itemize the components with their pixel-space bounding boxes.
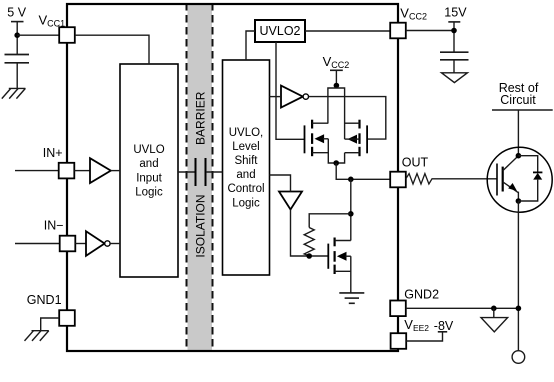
svg-text:UVLO2: UVLO2 [260,24,301,38]
transistor Q4 IGBT body [497,156,518,201]
svg-text:5 V: 5 V [7,6,26,20]
svg-text:Logic: Logic [135,186,163,198]
5V supply bar [11,21,24,23]
wire GND1 pin to ground [41,318,60,331]
wire UVLO2 to PMOS gate node [276,42,305,139]
wire C2 to ground triangle [453,60,455,73]
svg-text:Shift: Shift [234,155,258,167]
block UVLO and Input Logic [120,64,178,277]
resistor R1 (vertical) [304,228,314,257]
isolation barrier right dashed line [212,3,214,351]
wire inverter A3 to right PMOS gate [309,97,386,140]
wire 15V to node [453,22,455,52]
pin OUT [390,172,406,188]
svg-text:VCC2: VCC2 [400,6,427,22]
wire IN+ external [15,170,59,172]
wire emitter down [517,201,519,351]
isolation barrier left dashed line [186,3,188,351]
isolation capacitor wire left [178,171,195,173]
svg-text:Control: Control [227,183,264,195]
block UVLO2 [255,20,305,42]
capacitor C2 plates [440,52,469,60]
-8V supply bar [438,331,447,333]
node 5V/VCC1 junction [14,32,20,38]
wire C1 to ground [16,63,18,89]
capacitor C1 plates [5,55,30,63]
pin VEE2 [391,333,407,349]
wire inverter to UVLO block [110,243,120,245]
diode D1 freewheel [518,156,542,201]
wire UVLO2 to VCC2 pin [305,30,390,32]
wire VCC2 pin to 15V node [406,30,454,32]
ground GND1 side chassis symbol [2,88,26,98]
svg-text:Circuit: Circuit [500,93,536,107]
wire tap to resistor R1 [309,214,351,228]
wire IN- external [15,243,60,245]
pin VCC1 [59,27,75,43]
svg-text:15V: 15V [444,5,467,19]
svg-text:VCC1: VCC1 [39,13,66,29]
svg-text:BARRIER: BARRIER [193,91,207,145]
transistor Q3 NMOS [328,238,351,293]
wire GND2 to emitter rail [406,307,519,309]
label Rest of Circuit [499,81,539,107]
wire IN+ pin to buffer [74,170,90,172]
node 15V junction [451,28,457,34]
node OUT rail junction [348,177,354,183]
wire control block to inverter A3 [270,96,282,98]
wire rest of circuit to collector [517,110,519,156]
svg-text:Input: Input [136,172,162,184]
isolation capacitor wire right [206,171,223,173]
pin GND2 [390,301,406,317]
wire VCC2 bar down [335,70,337,88]
resistor R2 gate resistor [406,174,497,184]
isolation capacitor plates [196,158,206,186]
node VCC2 internal junction [334,83,340,89]
pin IN+ [59,163,75,179]
15V supply bar [448,21,460,23]
svg-text:UVLO: UVLO [133,144,164,156]
svg-text:UVLO,: UVLO, [229,127,264,139]
wire buffer A4 to NMOS gate [291,210,329,257]
svg-text:VCC2: VCC2 [323,54,350,70]
wire VEE2 to -8V bar [406,332,442,341]
device outline box [67,4,398,351]
buffer A4 (pull-down drive) [279,192,302,210]
isolation barrier gray band [188,3,213,351]
block UVLO Level Shift and Control Logic [223,60,270,275]
pin GND1 [59,310,75,326]
wire buffer to UVLO block [111,170,120,172]
wire VCC2 bracket to PMOS sources [328,88,345,139]
inverter A2 (IN-) [86,231,110,256]
svg-text:OUT: OUT [402,155,429,169]
transistor Q4 IGBT circle [487,147,552,212]
pin VCC2 [390,23,406,39]
svg-text:and: and [236,169,255,181]
svg-text:Logic: Logic [232,197,260,209]
wire PMOS junction to OUT rail [336,163,390,179]
pin IN- [60,236,76,252]
svg-text:ISOLATION: ISOLATION [193,194,207,257]
transistor Q1 left PMOS [305,120,337,163]
rest of circuit bar [492,109,553,111]
svg-text:GND1: GND1 [27,293,62,307]
wire junction to ground triangle [493,308,495,317]
node resistor tap junction [348,211,354,217]
svg-text:IN−: IN− [44,219,64,233]
ground triangle (GND2) [481,318,508,332]
svg-text:GND2: GND2 [404,287,439,301]
ground triangle (15V cap) [442,73,468,83]
wire OUT rail down to NMOS drain [350,179,352,240]
inverter A3 (gate drive) [281,86,308,108]
wire control block to buffer A4 [270,175,291,192]
svg-text:VEE2: VEE2 [404,317,429,333]
wire 5V to node [16,22,18,55]
node emitter junction [516,198,522,204]
svg-text:IN+: IN+ [43,146,63,160]
wire node to VCC1 pin [17,34,59,36]
svg-text:and: and [139,158,158,170]
node GND2 ground junction [491,306,497,312]
node PMOS drains junction [333,160,339,166]
transistor Q2 right PMOS (mirrored) [336,120,367,163]
svg-text:Level: Level [232,141,260,153]
node collector junction [516,153,522,159]
ground GND1 chassis symbol [25,331,49,341]
node NMOS gate junction [306,253,312,259]
wire VCC1 to UVLO block [75,35,149,64]
VCC2 internal supply bar [330,69,343,71]
wire UVLO2 to control block [246,31,255,60]
buffer A1 (IN+) [90,158,111,183]
terminal open circle [512,351,525,364]
node emitter/GND2 junction [516,306,522,312]
ground earth symbol (NMOS source) [339,293,364,303]
wire IN- pin to inverter [75,243,86,245]
